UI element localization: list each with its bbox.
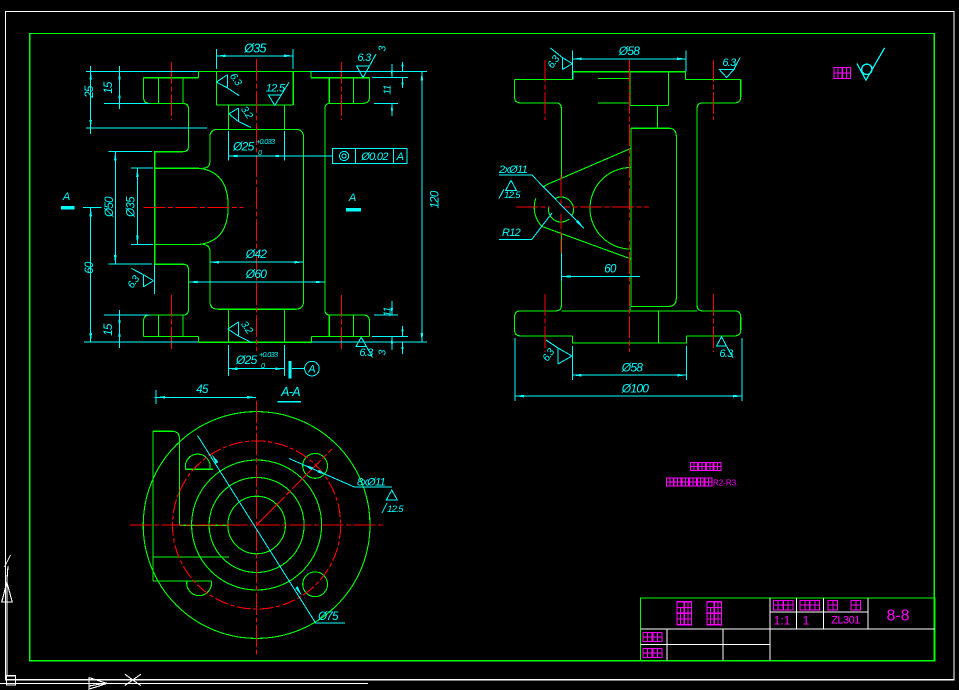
side view: centerlines: [516, 60, 713, 352]
A-A view: centerlines: [130, 401, 384, 655]
svg-text:8-8: 8-8: [886, 608, 909, 625]
roughness 12.5 below 8xØ11: [382, 490, 397, 513]
svg-text:60: 60: [84, 261, 96, 274]
dim 15 (top left): [86, 66, 198, 109]
roughness 6.3 at top bore wall: [216, 75, 239, 96]
svg-text:A: A: [348, 192, 356, 204]
dim 60 (left): [83, 208, 198, 343]
svg-text:12.5: 12.5: [504, 190, 521, 201]
svg-text:2xØ11: 2xØ11: [498, 164, 528, 176]
roughness 6.3 side top-right: [719, 58, 740, 78]
svg-text:12.5: 12.5: [387, 504, 404, 515]
svg-text:6.3: 6.3: [359, 347, 374, 359]
roughness 6.3 side top-left: [550, 48, 572, 70]
svg-text:0: 0: [261, 361, 265, 370]
svg-text:A-A: A-A: [280, 385, 300, 399]
svg-text:45: 45: [196, 384, 209, 396]
dim 15 (bottom left): [104, 310, 150, 348]
svg-text:+0.033: +0.033: [256, 137, 275, 146]
roughness 6.3 top right: [357, 54, 377, 78]
svg-text:+0.033: +0.033: [259, 350, 278, 359]
dim 60 (side): [561, 253, 640, 281]
dim 11 (bottom right): [374, 301, 398, 350]
title: headers: [774, 601, 784, 611]
dim 45 and A-A title: [154, 390, 256, 404]
section mark A (right): [346, 208, 361, 212]
side view: port teardrop boss: [534, 148, 631, 259]
title block frame: [640, 598, 935, 661]
dim Ø60: [189, 281, 325, 283]
svg-text:120: 120: [430, 190, 442, 208]
dim Ø58 (bottom): [572, 346, 686, 380]
dim Ø35 (top): [217, 49, 294, 69]
svg-text:1: 1: [803, 614, 810, 628]
A-A view: bolt holes: [185, 454, 327, 597]
technical requirements text: [691, 462, 698, 470]
svg-text:11: 11: [383, 307, 394, 316]
title: 审核 row: [643, 649, 652, 658]
svg-text:Ø35: Ø35: [243, 42, 266, 56]
svg-text:6.3: 6.3: [722, 57, 737, 69]
dim Ø100 (bottom): [515, 338, 742, 401]
front view: centerlines: [144, 59, 342, 351]
svg-text:3: 3: [378, 45, 389, 51]
datum A flag: [290, 361, 319, 379]
dim 3 (top right): [372, 62, 408, 88]
svg-text:25: 25: [84, 85, 96, 99]
svg-text:15: 15: [103, 323, 115, 336]
A-A view: concentric circles: [143, 412, 370, 639]
front view: valve body section outline: [144, 71, 370, 342]
roughness 12.5 at counterbore bottom: [268, 82, 289, 105]
svg-text:0: 0: [258, 148, 262, 157]
dim Ø25 +0.033 (top): [228, 131, 284, 161]
roughness 6.3 side bottom-left: [546, 340, 572, 364]
roughness 6.3 side bottom-right: [717, 337, 734, 358]
svg-text:6.3: 6.3: [357, 52, 372, 64]
title block grid: [640, 598, 935, 661]
dim Ø25 +0.033 (bottom): [228, 345, 284, 376]
dim Ø50 (left): [108, 152, 152, 265]
svg-text:11: 11: [383, 85, 394, 94]
svg-text:Ø58: Ø58: [618, 44, 641, 58]
side view: bottom bore half-section: [630, 306, 659, 343]
svg-text:60: 60: [604, 264, 617, 276]
note: surface roughness (rest): [834, 68, 842, 79]
svg-text:Ø75: Ø75: [317, 611, 339, 623]
svg-text:Ø58: Ø58: [621, 361, 644, 375]
roughness 12.5 below label: [499, 181, 517, 199]
svg-text:A: A: [62, 191, 70, 203]
svg-text:R2-R3.: R2-R3.: [713, 479, 738, 488]
svg-text:6.3: 6.3: [719, 348, 734, 360]
dim 120 (right): [311, 71, 427, 342]
side view: top bore half-section: [630, 72, 669, 129]
front view: bottom port bore: [228, 309, 284, 342]
dim 25 (left): [86, 66, 207, 134]
svg-text:A: A: [396, 151, 404, 163]
A-A view: side port section: [153, 431, 229, 581]
dim 11 (top right): [374, 64, 398, 116]
title: part name 阀体: [677, 602, 692, 625]
front view: inner chamber: [203, 129, 304, 309]
svg-text:Ø35: Ø35: [126, 196, 138, 218]
roughness 3.2 at bottom Ø25 wall: [228, 322, 252, 343]
front view: side port bore: [155, 168, 229, 244]
UCS icon: [0, 555, 368, 689]
roughness 6.3 at side port face: [131, 264, 154, 294]
front view: flange bolt holes: [158, 78, 353, 337]
dim Ø42: [210, 261, 304, 263]
feature control frame Ø0.02 A: [284, 149, 407, 164]
svg-text:Ø50: Ø50: [104, 196, 116, 218]
svg-text:12.5: 12.5: [266, 83, 286, 95]
roughness 6.3 bottom right: [356, 337, 373, 357]
svg-text:1:1: 1:1: [774, 614, 791, 628]
svg-text:ZL301: ZL301: [831, 615, 860, 627]
svg-text:Ø0.02: Ø0.02: [360, 151, 388, 163]
section mark A (left): [61, 206, 74, 210]
svg-text:Ø42: Ø42: [245, 247, 268, 261]
dim Ø35 (left port): [131, 168, 153, 244]
side view: chamber half-section: [631, 128, 677, 306]
svg-text:3: 3: [378, 349, 389, 355]
svg-text:R12: R12: [502, 227, 521, 239]
svg-text:Ø60: Ø60: [245, 267, 268, 281]
roughness 3.2 at top Ø25 wall: [229, 108, 251, 127]
svg-text:A: A: [307, 364, 315, 376]
svg-text:Ø25: Ø25: [232, 140, 255, 154]
svg-text:Ø25: Ø25: [235, 353, 258, 367]
svg-text:15: 15: [103, 81, 115, 94]
side view: outline: [515, 72, 741, 343]
title: 制图 row: [643, 633, 652, 642]
dim Ø58 (top): [573, 50, 686, 79]
front view: top port bores: [217, 71, 294, 129]
svg-text:Ø100: Ø100: [621, 382, 650, 396]
dim 3 (bottom right): [372, 326, 408, 354]
